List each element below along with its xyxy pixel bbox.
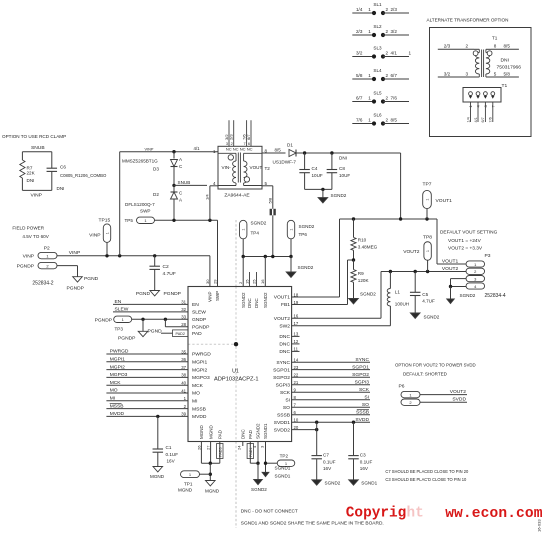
net EN stub (113, 299, 188, 305)
svg-text:252834-2: 252834-2 (32, 281, 53, 287)
svg-text:SGND2: SGND2 (299, 224, 315, 229)
svg-text:7/6: 7/6 (489, 117, 493, 122)
U1 bottom pins left group MGND MGND PAD (196, 425, 223, 459)
net tie bars on pin5 return (270, 209, 276, 257)
svg-text:C7 SHOULD BE PLACED CLOSE TO P: C7 SHOULD BE PLACED CLOSE TO PIN 20 (385, 469, 469, 474)
svg-text:PGNDP: PGNDP (67, 286, 84, 292)
svg-text:ALTERNATE TRANSFORMER OPTION: ALTERNATE TRANSFORMER OPTION (427, 18, 509, 23)
svg-text:C5: C5 (422, 292, 428, 297)
svg-text:1/4: 1/4 (205, 194, 210, 200)
svg-text:2/3: 2/3 (391, 7, 398, 12)
net VOUT1 rail (340, 217, 438, 220)
svg-text:NC: NC (233, 146, 239, 151)
svg-text:1: 1 (368, 7, 371, 12)
svg-text:6: 6 (248, 142, 250, 146)
svg-text:10UF: 10UF (312, 173, 323, 178)
svg-text:SGND2: SGND2 (241, 292, 246, 308)
svg-text:2: 2 (231, 142, 233, 146)
SGND2 bus wire (242, 255, 293, 287)
svg-text:DEFAULT VOUT SETTING: DEFAULT VOUT SETTING (440, 230, 498, 236)
wire FB1 to divider (292, 258, 356, 304)
svg-text:2: 2 (386, 29, 389, 34)
jumper SL4 (352, 68, 409, 81)
svg-text:VOUT2: VOUT2 (403, 249, 420, 255)
svg-text:TP6: TP6 (299, 232, 308, 237)
svg-text:MI: MI (192, 399, 197, 405)
svg-text:1/4: 1/4 (356, 7, 363, 12)
svg-text:SLEW: SLEW (115, 307, 129, 313)
svg-text:SGND2: SGND2 (251, 487, 267, 492)
svg-text:VINP: VINP (89, 233, 100, 239)
svg-text:ZA9644-AE: ZA9644-AE (224, 193, 250, 199)
svg-text:SI: SI (285, 397, 290, 403)
test point TP3 on GNDP (95, 316, 188, 331)
svg-text:SVDD: SVDD (355, 417, 369, 423)
svg-text:SGPI3: SGPI3 (276, 383, 291, 389)
capacitor C1 (153, 415, 179, 467)
test point TP6 (287, 220, 314, 256)
test point TP2 (264, 442, 295, 473)
svg-text:PGNDP: PGNDP (95, 317, 112, 323)
svg-text:P2: P2 (44, 246, 50, 252)
svg-text:VOUT1: VOUT1 (436, 198, 453, 204)
svg-text:TP4: TP4 (251, 231, 260, 236)
diode D2 (125, 185, 183, 220)
svg-text:PGNDP: PGNDP (164, 291, 181, 297)
wire DNC bottom stub (242, 442, 244, 447)
svg-text:SYNC: SYNC (355, 357, 369, 363)
svg-text:SW2: SW2 (279, 324, 290, 330)
wire D1 output to VOUT1 node (296, 151, 401, 219)
svg-text:2: 2 (466, 43, 469, 48)
U1 left pins lower group (181, 349, 211, 420)
ground SGND1 under C3 (349, 480, 378, 486)
svg-text:100UH: 100UH (395, 302, 409, 307)
svg-text:SSSB: SSSB (277, 413, 290, 419)
svg-text:1: 1 (368, 29, 371, 34)
svg-text:SGND2: SGND2 (331, 193, 347, 198)
ground PGNDP under TP3 wire (118, 319, 148, 341)
svg-text:MVDD: MVDD (192, 414, 207, 420)
svg-text:FB1: FB1 (281, 302, 290, 308)
svg-text:US1DWF-7: US1DWF-7 (273, 160, 297, 165)
svg-text:PAD: PAD (248, 429, 253, 439)
svg-text:1: 1 (289, 229, 293, 231)
capacitor C3 (348, 422, 372, 480)
svg-text:7/6: 7/6 (391, 96, 398, 101)
svg-text:MSSB: MSSB (192, 406, 206, 412)
svg-text:SGND2: SGND2 (325, 481, 341, 486)
svg-text:1: 1 (409, 50, 412, 55)
svg-text:3: 3 (466, 71, 469, 76)
svg-text:SCK: SCK (280, 390, 291, 396)
svg-text:TP5: TP5 (125, 218, 134, 223)
svg-text:PGND: PGND (84, 276, 99, 282)
snubber clamp network R7/C6 (20, 145, 107, 199)
svg-text:MGND: MGND (205, 489, 220, 494)
alternate transformer option box (430, 28, 532, 137)
test point TP4 (240, 220, 267, 256)
svg-text:NC: NC (226, 146, 232, 151)
T1 footprint pin wires (466, 102, 495, 123)
net VINP rail (57, 250, 210, 256)
ground PGND at C2 (136, 291, 181, 297)
svg-text:2: 2 (386, 7, 389, 12)
svg-text:Copyrig: Copyrig (346, 506, 406, 522)
svg-text:8/5: 8/5 (275, 147, 282, 152)
svg-text:30: 30 (205, 279, 210, 284)
svg-text:MO: MO (192, 391, 200, 397)
ground PGND at P2 (67, 276, 99, 292)
svg-text:T1: T1 (502, 83, 508, 89)
svg-text:1: 1 (242, 229, 246, 231)
ground SGND2 under C4 C8 (305, 188, 347, 203)
svg-text:C6: C6 (60, 165, 66, 170)
svg-text:1/4: 1/4 (466, 117, 470, 122)
svg-text:MGND: MGND (150, 474, 165, 479)
svg-text:DNI: DNI (501, 58, 509, 64)
svg-text:120K: 120K (358, 278, 370, 283)
svg-text:1: 1 (368, 117, 371, 122)
svg-text:DNC: DNC (279, 334, 290, 340)
wire SW2 to L1 (292, 306, 391, 326)
svg-text:4/1: 4/1 (194, 146, 201, 151)
ground SGND1 bottom (262, 472, 291, 478)
svg-text:SI: SI (364, 394, 369, 400)
svg-text:6/7: 6/7 (391, 73, 398, 78)
jumper SL2 (352, 24, 409, 37)
ground SGND2 under C5 (410, 313, 439, 320)
connector P2 (17, 246, 57, 287)
svg-text:VIN-: VIN- (222, 165, 232, 170)
svg-text:C8: C8 (339, 166, 345, 171)
svg-text:PGNDP: PGNDP (192, 325, 209, 331)
wire transformer pin4 riser (205, 186, 218, 221)
svg-text:SGPO1: SGPO1 (352, 364, 369, 370)
svg-text:SGND2: SGND2 (263, 292, 268, 308)
svg-text:16: 16 (260, 279, 265, 284)
svg-text:SNUB: SNUB (31, 145, 45, 151)
svg-text:PAD: PAD (218, 429, 223, 439)
svg-text:VOUT1 = +24V: VOUT1 = +24V (448, 238, 482, 244)
left net stubs PWRGD..MVDD (106, 349, 188, 417)
U1 right pins names and numbers (273, 292, 299, 433)
transformer T2 NC pins (224, 120, 251, 146)
svg-text:MO: MO (110, 388, 118, 394)
svg-text:16V: 16V (360, 466, 369, 471)
svg-text:SGPO2: SGPO2 (352, 372, 369, 378)
svg-text:6/7: 6/7 (481, 117, 485, 122)
svg-text:VOUT: VOUT (250, 165, 263, 170)
svg-text:6/7: 6/7 (356, 96, 363, 101)
svg-text:C4: C4 (312, 166, 318, 171)
svg-text:EN: EN (115, 299, 122, 305)
svg-text:2: 2 (386, 117, 389, 122)
svg-text:C7: C7 (323, 453, 329, 458)
svg-text:MCK: MCK (110, 380, 122, 386)
svg-text:SO: SO (283, 405, 290, 411)
svg-text:3: 3 (226, 142, 228, 146)
svg-text:2/3: 2/3 (356, 29, 363, 34)
capacitor C4 (299, 153, 323, 189)
svg-text:0.1UF: 0.1UF (323, 459, 336, 464)
svg-text:DNC: DNC (254, 298, 259, 308)
svg-text:PGND: PGND (148, 328, 163, 334)
svg-text:SL5: SL5 (373, 90, 382, 95)
right net stubs SYNC..SVDD (292, 357, 371, 423)
svg-text:6/7: 6/7 (246, 134, 251, 140)
wire transformer pin8 output (262, 147, 286, 153)
watermark copyright (346, 506, 543, 523)
svg-text:3/2: 3/2 (444, 72, 451, 77)
svg-text:OPTION TO USE RCD CLAMP: OPTION TO USE RCD CLAMP (2, 134, 66, 139)
transformer T1 (alternate) (438, 36, 521, 78)
svg-text:NC: NC (247, 146, 253, 151)
svg-text:MGPI1: MGPI1 (192, 360, 207, 366)
wires MGND pins to MGND (201, 442, 219, 481)
jumper SL6 (352, 112, 409, 125)
svg-text:SGND2: SGND2 (298, 265, 314, 270)
jumper SL1 (352, 2, 409, 15)
svg-text:3/2: 3/2 (391, 29, 398, 34)
svg-text:D2: D2 (153, 192, 159, 197)
svg-text:MMSZ5265BT1G: MMSZ5265BT1G (122, 159, 158, 164)
net PGND to PAD2 (148, 328, 189, 336)
svg-text:MGND: MGND (178, 488, 193, 493)
ground SGND2 bottom (251, 480, 267, 493)
net SVDD stub at P6 (420, 397, 467, 403)
svg-text:5/8: 5/8 (356, 73, 363, 78)
svg-text:16V: 16V (323, 466, 332, 471)
svg-text:SVDD: SVDD (452, 397, 466, 403)
svg-text:DEFAULT: SHORTED: DEFAULT: SHORTED (403, 372, 448, 377)
svg-text:PAD2: PAD2 (176, 332, 185, 336)
test point TP15 (89, 218, 111, 258)
wire VOUT1 into P3 (437, 219, 467, 264)
svg-text:PGND: PGND (136, 291, 151, 297)
svg-text:4.7UF: 4.7UF (422, 299, 435, 304)
wires PAD1 SGND2 to ground (250, 442, 259, 480)
svg-text:ww.econ.com: ww.econ.com (445, 506, 543, 522)
svg-text:SL1: SL1 (373, 2, 382, 7)
svg-text:1: 1 (368, 73, 371, 78)
svg-text:10UF: 10UF (339, 173, 350, 178)
svg-text:NC: NC (240, 146, 246, 151)
ground SGND2 under R9 (349, 292, 377, 304)
svg-text:TP2: TP2 (280, 453, 289, 458)
U1 bottom pins right group DNC PAD SGND2 SGND1 (236, 423, 268, 459)
svg-text:MGPO3: MGPO3 (110, 372, 128, 378)
svg-text:FIELD POWER: FIELD POWER (12, 226, 44, 231)
svg-text:24: 24 (236, 445, 241, 450)
svg-text:SL4: SL4 (373, 68, 382, 73)
svg-text:SGND2: SGND2 (256, 423, 261, 439)
wire transformer pin5 return (262, 181, 273, 209)
ground MGND under pads (205, 481, 220, 494)
svg-text:750317966: 750317966 (497, 65, 522, 71)
resistor R9 (351, 260, 370, 299)
svg-text:TP7: TP7 (423, 182, 432, 188)
test point TP1 (178, 471, 210, 493)
svg-text:SGND2: SGND2 (460, 293, 476, 298)
svg-text:4.7UF: 4.7UF (163, 271, 176, 277)
svg-text:MGPI2: MGPI2 (192, 367, 207, 373)
svg-text:1: 1 (425, 198, 429, 200)
svg-text:SYNC: SYNC (276, 360, 290, 366)
svg-text:PWRGD: PWRGD (110, 349, 129, 355)
svg-text:22K: 22K (27, 171, 36, 176)
svg-text:1: 1 (426, 250, 430, 252)
svg-text:TP3: TP3 (115, 327, 124, 332)
svg-text:C3 SHOULD BE PLAC'D CLOSE TO P: C3 SHOULD BE PLAC'D CLOSE TO PIN 10 (385, 477, 467, 482)
svg-text:P6: P6 (399, 384, 405, 390)
svg-text:SNUB: SNUB (178, 180, 191, 185)
svg-text:SSSB: SSSB (356, 410, 369, 416)
svg-text:SL3: SL3 (373, 45, 382, 50)
wire GNDP to PGNDP pin (165, 319, 188, 327)
ground SGND2 at bus (286, 257, 314, 278)
svg-text:8/5: 8/5 (504, 44, 511, 49)
svg-text:3.48MEG: 3.48MEG (358, 244, 378, 249)
svg-text:SLEW: SLEW (192, 310, 206, 316)
svg-text:ADP1032ACPZ-1: ADP1032ACPZ-1 (214, 377, 259, 383)
svg-text:SGND1: SGND1 (275, 474, 291, 479)
svg-text:OPTION FOR VOUT2 TO POWER SVDD: OPTION FOR VOUT2 TO POWER SVDD (395, 363, 476, 368)
svg-text:2: 2 (386, 73, 389, 78)
svg-text:15: 15 (244, 279, 249, 284)
svg-text:8/5: 8/5 (391, 118, 398, 123)
svg-text:TP1: TP1 (184, 482, 193, 487)
SVDD2 pin wire (292, 421, 356, 432)
svg-text:R10: R10 (358, 238, 367, 243)
svg-text:DNC: DNC (279, 342, 290, 348)
svg-text:4.5V TO 60V: 4.5V TO 60V (22, 234, 49, 239)
capacitor C5 (410, 272, 435, 314)
transformer T1 footprint connector (463, 83, 507, 102)
svg-text:DNI: DNI (339, 156, 347, 161)
capacitor C2 (149, 254, 175, 290)
svg-text:2: 2 (386, 50, 389, 55)
svg-text:MI: MI (110, 396, 115, 402)
svg-text:DNI: DNI (57, 186, 65, 191)
svg-text:MCK: MCK (192, 383, 204, 389)
wires P3 pins 3 4 to ground (449, 279, 466, 299)
test point TP7 (423, 182, 453, 220)
svg-text:SGND1: SGND1 (361, 481, 377, 486)
svg-text:VOUT2: VOUT2 (442, 266, 459, 272)
svg-text:SL2: SL2 (373, 24, 382, 29)
svg-text:MGPI1: MGPI1 (110, 357, 125, 363)
svg-text:MGND: MGND (208, 425, 213, 439)
svg-text:P3: P3 (485, 253, 491, 259)
svg-text:PGNDP: PGNDP (118, 336, 135, 342)
svg-text:SGND1: SGND1 (263, 423, 268, 439)
jumper SL3 (352, 45, 411, 58)
op-amp U1 ADP1032ACPZ-1 body (188, 287, 292, 442)
net SLEW stub (113, 307, 188, 313)
svg-text:ht: ht (407, 506, 424, 522)
svg-text:PWRGD: PWRGD (192, 352, 211, 358)
svg-text:C2: C2 (163, 264, 170, 270)
svg-text:T1: T1 (492, 36, 498, 41)
svg-text:2/3: 2/3 (229, 134, 234, 140)
svg-text:L1: L1 (395, 290, 401, 295)
svg-text:0.1UF: 0.1UF (360, 459, 373, 464)
svg-text:VOUT1: VOUT1 (274, 295, 291, 301)
resistor R10 (351, 219, 378, 260)
svg-text:DNC: DNC (279, 349, 290, 355)
connector P6 (399, 384, 421, 406)
svg-text:252834-4: 252834-4 (485, 293, 506, 299)
wire VOUT1 pin to rail (292, 219, 340, 297)
svg-text:MGPI2: MGPI2 (110, 364, 125, 370)
svg-text:PGNDP: PGNDP (17, 263, 34, 269)
svg-text:DFLS1200Q-7: DFLS1200Q-7 (125, 202, 155, 207)
svg-text:VOUT2 = +3.3V: VOUT2 = +3.3V (448, 246, 483, 252)
connector P3 (466, 253, 506, 299)
svg-text:C0805_R1206_COMBO: C0805_R1206_COMBO (60, 173, 107, 178)
transformer T2 ZA9644-AE (213, 146, 270, 198)
svg-text:T2: T2 (265, 166, 271, 171)
wire VOUT2 pin to rail (292, 272, 381, 319)
svg-text:SVDD1: SVDD1 (274, 420, 291, 426)
DNC stubs right (292, 336, 300, 351)
net VOUT2 stub at P6 (420, 389, 467, 395)
svg-text:SGND2: SGND2 (424, 315, 440, 320)
svg-text:SWP: SWP (215, 291, 220, 301)
net SWP wire (155, 219, 218, 287)
svg-text:SGND1: SGND1 (275, 465, 291, 470)
svg-text:VOUT1: VOUT1 (442, 258, 459, 264)
jumper SL5 (352, 90, 409, 103)
svg-text:25: 25 (251, 279, 256, 284)
svg-text:1: 1 (105, 232, 109, 234)
svg-text:DNC - DO NOT CONNECT: DNC - DO NOT CONNECT (241, 509, 298, 514)
svg-text:4/1: 4/1 (391, 51, 398, 56)
svg-text:4/1: 4/1 (474, 117, 478, 122)
ground SGND2 under C7 (312, 480, 341, 486)
svg-text:VINP: VINP (208, 291, 213, 302)
svg-text:7/6: 7/6 (356, 118, 363, 123)
svg-text:PAD: PAD (192, 331, 202, 337)
svg-text:SGPO1: SGPO1 (273, 367, 290, 373)
svg-text:VINP: VINP (31, 193, 42, 199)
svg-text:5/8: 5/8 (267, 197, 272, 203)
option for vout2 text (395, 363, 476, 377)
svg-text:7: 7 (243, 142, 245, 146)
svg-text:TP8: TP8 (423, 235, 432, 241)
svg-text:VINP: VINP (23, 253, 34, 259)
svg-text:U1: U1 (232, 369, 239, 375)
svg-text:DNI: DNI (27, 178, 35, 183)
svg-text:26: 26 (196, 445, 201, 450)
svg-text:29: 29 (213, 279, 218, 284)
svg-text:3/2: 3/2 (356, 51, 363, 56)
svg-text:VINP: VINP (69, 250, 80, 256)
svg-text:C1: C1 (166, 445, 172, 450)
default vout setting text (440, 230, 498, 252)
svg-text:16-033: 16-033 (537, 519, 542, 532)
svg-text:5: 5 (494, 71, 497, 76)
svg-text:SGPO2: SGPO2 (273, 375, 290, 381)
capacitor C7 (311, 422, 335, 480)
svg-text:SGND2: SGND2 (251, 221, 267, 226)
U1 left pins upper group (181, 300, 209, 337)
svg-text:SGND2: SGND2 (360, 292, 376, 297)
svg-text:MVDD: MVDD (110, 411, 125, 417)
wire P2 pin2 to PGND (57, 266, 78, 277)
test point TP5 (125, 217, 155, 223)
